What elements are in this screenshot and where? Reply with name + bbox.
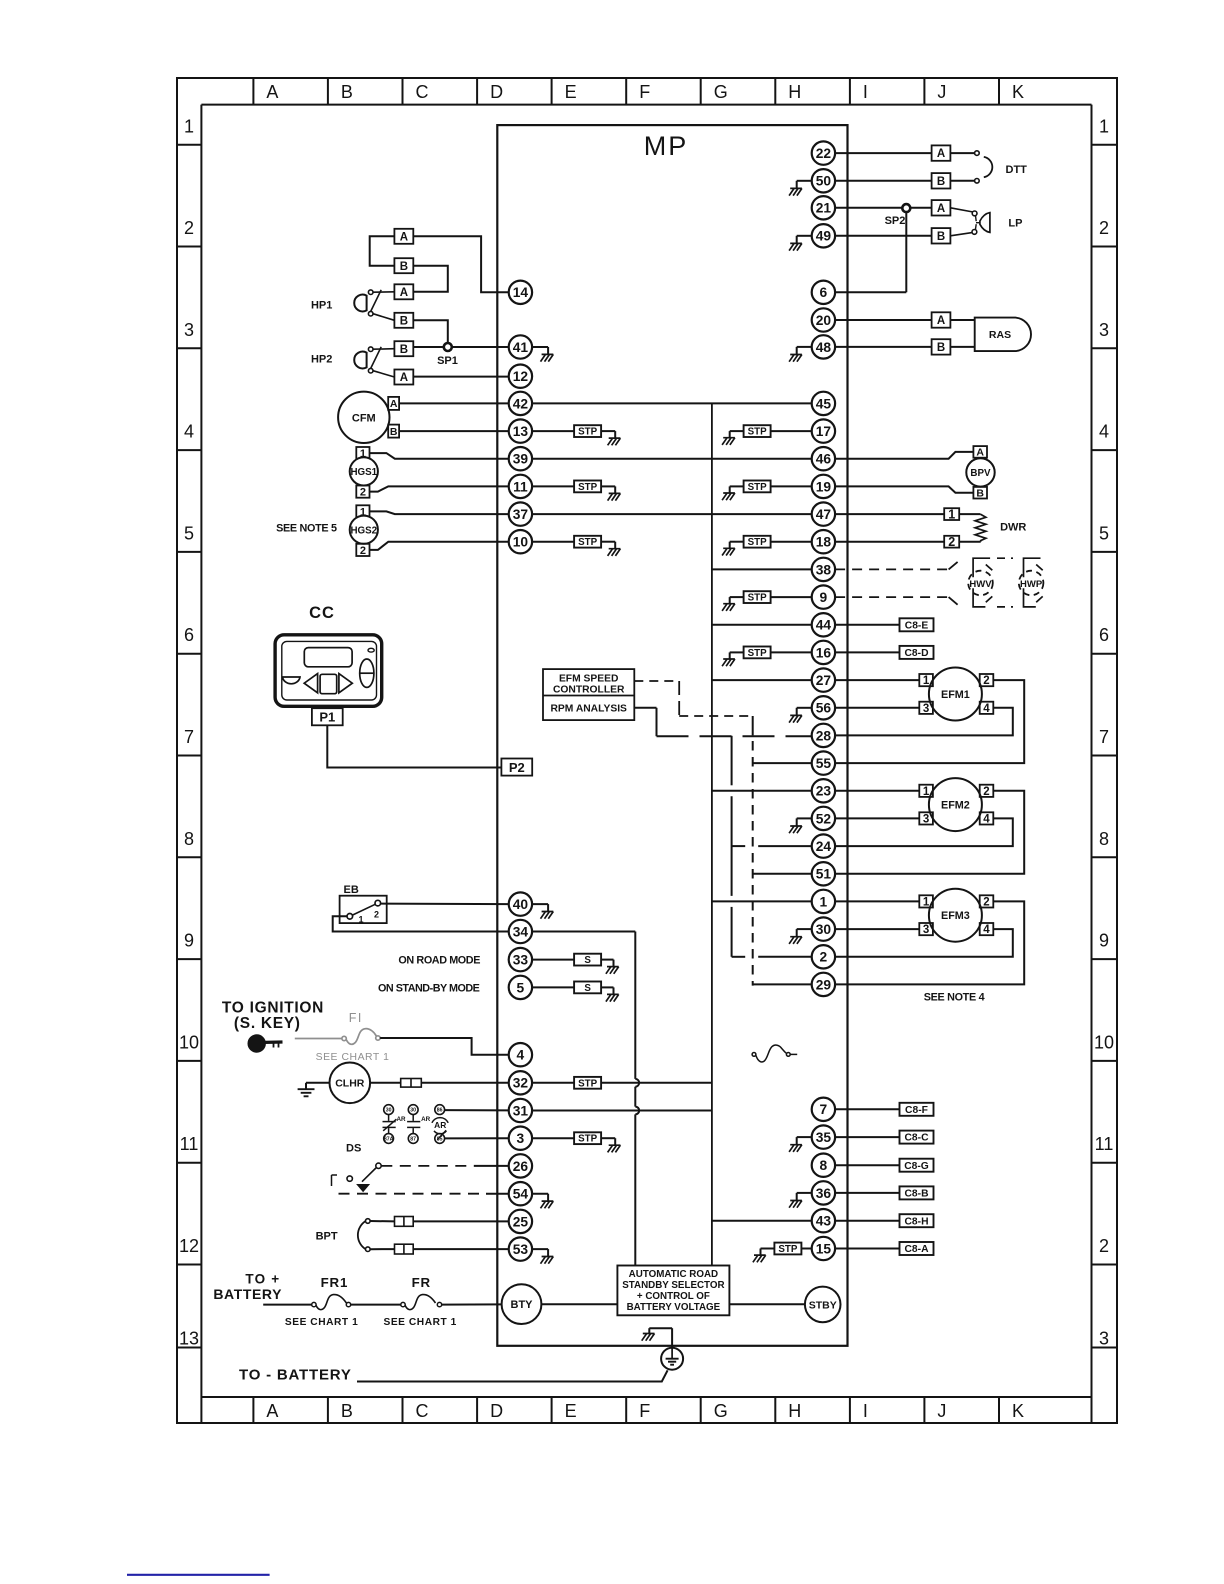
wire pin 56 to EFM1-3	[835, 707, 919, 709]
switch signal S at pin 33	[532, 954, 619, 974]
wire pin 8 to C8-G	[835, 1164, 900, 1166]
pin 29 (MP right)	[812, 973, 835, 996]
pin 16 (MP right)	[812, 641, 835, 664]
wire AR-85 to pin 3	[445, 1137, 509, 1139]
wire pin 37 to pin 47	[532, 513, 812, 515]
heater CLHR	[330, 1063, 371, 1104]
horn HP2	[311, 347, 394, 377]
svg-text:55: 55	[816, 756, 832, 771]
svg-text:12: 12	[513, 369, 529, 384]
wire pin 31 to bus	[532, 1110, 712, 1112]
svg-text:1: 1	[184, 117, 194, 137]
sensor HGS1	[350, 447, 378, 499]
connector C8-G	[900, 1159, 934, 1172]
svg-text:STP: STP	[748, 482, 768, 493]
wire pin 38 to HWV (dashed)	[835, 562, 958, 570]
svg-text:34: 34	[513, 924, 529, 939]
wire CFM-B to pin 13	[399, 430, 509, 432]
svg-text:A: A	[976, 447, 984, 459]
wire pin 22 to DTT-A	[835, 152, 932, 154]
svg-text:H: H	[788, 82, 801, 102]
ground (earth) at CLHR	[298, 1083, 330, 1097]
wire BPT upper with fuse to pin 25	[370, 1217, 509, 1227]
pin 27 (MP right)	[812, 668, 835, 691]
svg-text:1: 1	[820, 894, 828, 909]
svg-text:3: 3	[517, 1131, 525, 1146]
svg-text:11: 11	[1095, 1134, 1114, 1154]
svg-text:AR: AR	[421, 1116, 431, 1123]
svg-text:FI: FI	[349, 1011, 363, 1025]
pin 50 (MP right)	[812, 169, 835, 192]
wire pin4 return chain vertical	[731, 736, 733, 957]
pin 25 (MP left)	[509, 1210, 532, 1233]
pin 17 (MP right)	[812, 419, 835, 442]
svg-text:32: 32	[513, 1076, 529, 1091]
pin 3 (MP left)	[509, 1127, 532, 1150]
svg-text:K: K	[1012, 82, 1024, 102]
connector B (RAS)	[932, 339, 951, 354]
thermostat DTT	[950, 151, 1027, 183]
svg-text:41: 41	[513, 340, 529, 355]
wire bus to pin 1	[712, 900, 812, 902]
wire DS lower to pin 54 (dashed)	[339, 1193, 509, 1195]
ground at pin 50	[789, 181, 812, 196]
pin 51 (MP right)	[812, 862, 835, 885]
svg-text:26: 26	[513, 1159, 529, 1174]
svg-text:39: 39	[513, 452, 529, 467]
svg-text:STP: STP	[748, 427, 768, 438]
fuse FR	[383, 1275, 456, 1328]
svg-text:SP2: SP2	[885, 215, 906, 227]
svg-text:25: 25	[513, 1214, 529, 1229]
svg-text:C8-D: C8-D	[904, 648, 928, 659]
svg-text:A: A	[400, 287, 408, 299]
pin 56 (MP right)	[812, 696, 835, 719]
wire pin 47 to DWR-1	[835, 513, 944, 515]
svg-text:4: 4	[983, 924, 990, 936]
wire pin 35 to C8-C	[835, 1136, 900, 1138]
pin 22 (MP right)	[812, 141, 835, 164]
svg-text:37: 37	[513, 507, 529, 522]
loudspeaker LP	[950, 208, 1022, 236]
svg-text:HWV: HWV	[969, 579, 992, 590]
svg-text:CONTROLLER: CONTROLLER	[553, 684, 625, 695]
svg-text:BATTERY VOLTAGE: BATTERY VOLTAGE	[627, 1302, 721, 1313]
svg-text:52: 52	[816, 811, 832, 826]
wire pin 42 to pin 45	[532, 402, 812, 404]
svg-text:B: B	[976, 488, 984, 500]
horn HP1	[311, 290, 394, 321]
pin 26 (MP left)	[509, 1154, 532, 1177]
svg-text:29: 29	[816, 977, 832, 992]
svg-text:45: 45	[816, 396, 832, 411]
svg-text:G: G	[714, 1401, 728, 1421]
pin 41 (MP left)	[509, 335, 532, 358]
wire pin 43 to C8-H	[835, 1220, 900, 1222]
pin 37 (MP left)	[509, 502, 532, 525]
svg-text:40: 40	[513, 897, 529, 912]
svg-text:7: 7	[184, 727, 194, 747]
svg-text:86: 86	[437, 1108, 443, 1114]
fuse FI (gray)	[295, 1011, 390, 1063]
EFM speed controller box	[543, 669, 634, 720]
wire battery feed to FR1	[263, 1304, 312, 1306]
svg-text:B: B	[400, 344, 408, 356]
svg-text:B: B	[400, 315, 408, 327]
svg-text:C: C	[416, 1401, 429, 1421]
svg-text:FR: FR	[412, 1275, 431, 1290]
connector A (LP)	[932, 200, 951, 215]
svg-text:24: 24	[816, 839, 832, 854]
svg-text:7: 7	[1099, 727, 1109, 747]
open splice pigtail	[752, 1045, 797, 1062]
wire pin 16 to C8-D	[835, 651, 900, 653]
wire selector to STBY	[729, 1303, 805, 1305]
svg-text:4: 4	[1099, 422, 1109, 442]
svg-text:1: 1	[923, 897, 930, 909]
svg-text:38: 38	[816, 562, 832, 577]
pin 43 (MP right)	[812, 1209, 835, 1232]
suppressor STP at pin 3	[532, 1132, 620, 1152]
wire pin 6 to SP2	[835, 208, 906, 292]
ground at pin 48	[789, 347, 812, 362]
relay AR contacts and coil	[383, 1105, 449, 1144]
svg-text:2: 2	[948, 535, 955, 549]
svg-text:TO +: TO +	[245, 1272, 280, 1287]
svg-text:J: J	[937, 1401, 946, 1421]
wire AR-86 to pin 31	[445, 1109, 509, 1111]
pin 23 (MP right)	[812, 779, 835, 802]
svg-text:20: 20	[816, 313, 832, 328]
svg-text:A: A	[937, 203, 945, 215]
svg-text:A: A	[400, 372, 408, 384]
svg-text:4: 4	[517, 1048, 525, 1063]
svg-text:9: 9	[1099, 931, 1109, 951]
suppressor STP at pin 32 to bus	[532, 1077, 712, 1089]
svg-text:30: 30	[410, 1108, 416, 1114]
svg-text:46: 46	[816, 452, 832, 467]
wire B4 to node SP1	[413, 320, 448, 347]
svg-text:CC: CC	[309, 604, 335, 622]
svg-text:EFM3: EFM3	[941, 910, 970, 922]
svg-text:RPM ANALYSIS: RPM ANALYSIS	[550, 703, 627, 714]
wire pin 18 to DWR-2	[835, 541, 944, 543]
wire chain to pin 24	[732, 845, 812, 847]
svg-text:A: A	[266, 1401, 278, 1421]
wire chain to pin 2	[732, 956, 812, 958]
svg-text:56: 56	[816, 701, 832, 716]
pin 6 (MP right)	[812, 281, 835, 304]
wire chain to pin 55	[753, 762, 812, 764]
wire EFM1-4 return to pin 28	[835, 708, 1013, 736]
pin 7 (MP right)	[812, 1098, 835, 1121]
svg-text:4: 4	[983, 703, 990, 715]
pin 21 (MP right)	[812, 196, 835, 219]
label TO - BATTERY	[239, 1366, 352, 1383]
svg-text:21: 21	[816, 201, 832, 216]
svg-text:SEE CHART 1: SEE CHART 1	[383, 1317, 456, 1328]
motor EFM2	[919, 778, 993, 831]
svg-text:54: 54	[513, 1187, 529, 1202]
svg-text:BPT: BPT	[316, 1230, 338, 1242]
svg-text:HP2: HP2	[311, 354, 332, 366]
svg-text:48: 48	[816, 340, 832, 355]
sensor BPT	[316, 1219, 371, 1252]
pin 2 (MP right)	[812, 945, 835, 968]
suppressor STP at pin 13	[532, 425, 620, 445]
wire FR1 to FR	[351, 1304, 401, 1306]
connector C8-A	[900, 1242, 934, 1255]
pump HWP (dashed)	[997, 558, 1043, 607]
svg-text:A: A	[390, 398, 398, 410]
svg-text:AR: AR	[434, 1120, 446, 1130]
label ON ROAD MODE	[398, 955, 480, 967]
wire HGS1-1 to pin 39	[370, 453, 509, 459]
svg-text:B: B	[400, 261, 408, 273]
svg-text:C: C	[416, 82, 429, 102]
pin 18 (MP right)	[812, 530, 835, 553]
MP controller box U-MP	[497, 125, 847, 1346]
svg-text:(S. KEY): (S. KEY)	[234, 1015, 301, 1032]
pin 53 (MP left)	[509, 1237, 532, 1260]
svg-text:27: 27	[816, 673, 832, 688]
svg-text:C8-G: C8-G	[904, 1161, 929, 1172]
svg-text:A: A	[937, 315, 945, 327]
ignition key symbol	[249, 1035, 283, 1051]
svg-text:DWR: DWR	[1000, 522, 1026, 534]
wire A1-B2 left bracket	[370, 236, 395, 265]
svg-text:2: 2	[374, 910, 379, 920]
svg-text:2: 2	[184, 218, 194, 238]
svg-text:23: 23	[816, 784, 832, 799]
svg-text:C8-E: C8-E	[905, 620, 929, 631]
wire bus to pin 38	[712, 568, 812, 570]
wire pin 23 to EFM2-1	[835, 790, 919, 792]
svg-text:A: A	[266, 82, 278, 102]
pin 54 (MP left)	[509, 1182, 532, 1205]
svg-text:49: 49	[816, 229, 832, 244]
motor EFM3	[919, 889, 993, 942]
svg-text:DS: DS	[346, 1143, 361, 1155]
pin 31 (MP left)	[509, 1099, 532, 1122]
label TO + BATTERY	[213, 1272, 282, 1302]
svg-text:3: 3	[923, 703, 929, 715]
wire B2-A3 right bracket	[413, 266, 448, 292]
svg-text:HGS1: HGS1	[350, 467, 377, 478]
pin 35 (MP right)	[812, 1125, 835, 1148]
svg-text:17: 17	[816, 424, 832, 439]
svg-text:33: 33	[513, 953, 529, 968]
svg-text:B: B	[937, 176, 945, 188]
svg-text:F: F	[639, 1401, 650, 1421]
svg-text:P1: P1	[319, 710, 335, 725]
svg-text:12: 12	[179, 1236, 199, 1256]
svg-text:STP: STP	[578, 427, 598, 438]
pin 11 (MP left)	[509, 475, 532, 498]
wire EFM2-2 return to pin 51	[835, 791, 1024, 874]
svg-text:36: 36	[816, 1186, 832, 1201]
svg-text:HWP: HWP	[1020, 579, 1043, 590]
pin 45 (MP right)	[812, 392, 835, 415]
pin 28 (MP right)	[812, 724, 835, 747]
svg-text:SP1: SP1	[437, 355, 458, 367]
switch DS	[332, 1143, 382, 1192]
motor EFM1	[919, 668, 993, 721]
node SP1	[437, 343, 458, 367]
svg-text:18: 18	[816, 535, 832, 550]
svg-text:E: E	[565, 1401, 577, 1421]
wire pin 21 through SP2 to LP-A	[835, 207, 932, 209]
pin 30 (MP right)	[812, 917, 835, 940]
ground at pin 40	[532, 904, 553, 919]
svg-text:CFM: CFM	[352, 412, 376, 424]
svg-text:30: 30	[816, 922, 832, 937]
svg-text:11: 11	[180, 1134, 199, 1154]
wire pin 52 to EFM2-3	[835, 817, 919, 819]
svg-text:EFM2: EFM2	[941, 800, 970, 812]
svg-text:STP: STP	[748, 593, 768, 604]
connector C8-H	[900, 1214, 934, 1227]
suppressor STP at pin 15	[753, 1243, 812, 1263]
pin 38 (MP right)	[812, 558, 835, 581]
ground at pin 30	[789, 929, 812, 944]
ground at pin 52	[789, 818, 812, 833]
svg-text:AR: AR	[397, 1116, 407, 1123]
svg-text:MP: MP	[644, 131, 689, 161]
pin 24 (MP right)	[812, 834, 835, 857]
wire internal bus (pin42/45 row to selector box)	[711, 403, 713, 1265]
svg-text:TO - BATTERY: TO - BATTERY	[239, 1366, 352, 1383]
wire chain to pin 29	[753, 983, 812, 985]
svg-text:S: S	[584, 983, 591, 994]
svg-text:C8-F: C8-F	[905, 1105, 928, 1116]
wire EB-1 to pin 34	[333, 916, 509, 931]
pin 46 (MP right)	[812, 447, 835, 470]
suppressor STP at pin 11	[532, 481, 620, 501]
wire pin 48 to RAS-B	[835, 346, 932, 348]
svg-text:2: 2	[983, 786, 989, 798]
svg-text:STP: STP	[748, 648, 768, 659]
pin 48 (MP right)	[812, 335, 835, 358]
svg-text:10: 10	[1094, 1032, 1114, 1052]
svg-text:3: 3	[923, 924, 929, 936]
svg-text:BTY: BTY	[511, 1299, 534, 1311]
svg-text:B: B	[390, 426, 398, 438]
wire pin 1 to EFM3-1	[835, 900, 919, 902]
svg-text:1: 1	[923, 786, 930, 798]
connector C8-C	[900, 1131, 934, 1144]
wire A1 to pin 14	[413, 236, 508, 292]
svg-text:3: 3	[923, 814, 929, 826]
svg-text:RAS: RAS	[989, 329, 1011, 341]
svg-text:3: 3	[1099, 1329, 1109, 1349]
wire pin 50 to DTT-B	[835, 180, 932, 182]
pin 49 (MP right)	[812, 224, 835, 247]
sensor HGS2	[276, 505, 378, 557]
svg-text:BATTERY: BATTERY	[213, 1286, 282, 1302]
wire EB-2 to pin 40	[381, 903, 509, 906]
svg-text:+ CONTROL OF: + CONTROL OF	[637, 1291, 710, 1302]
pin 8 (MP right)	[812, 1154, 835, 1177]
svg-text:E: E	[565, 82, 577, 102]
pin 19 (MP right)	[812, 475, 835, 498]
svg-text:35: 35	[816, 1130, 832, 1145]
svg-text:SEE NOTE 4: SEE NOTE 4	[924, 992, 985, 1004]
svg-text:STBY: STBY	[809, 1300, 837, 1312]
connector box ladder A/B (top left)	[394, 229, 413, 385]
connector B (DTT)	[932, 173, 951, 188]
connector B (LP)	[932, 228, 951, 243]
svg-text:ON STAND-BY MODE: ON STAND-BY MODE	[378, 982, 480, 994]
connector A (DTT)	[932, 145, 951, 160]
svg-text:LP: LP	[1008, 218, 1022, 230]
svg-text:15: 15	[816, 1241, 832, 1256]
wire pin 39 to pin 46	[532, 458, 812, 460]
svg-text:1: 1	[948, 508, 955, 522]
svg-text:2: 2	[360, 487, 366, 499]
wire pin 20 to RAS-A	[835, 319, 932, 321]
svg-text:A: A	[937, 148, 945, 160]
pin 15 (MP right)	[812, 1237, 835, 1260]
wire DS to pin 26 (dashed)	[381, 1165, 508, 1167]
svg-text:C8-B: C8-B	[904, 1189, 928, 1200]
connector P1	[312, 708, 343, 725]
svg-text:G: G	[714, 82, 728, 102]
wire chain to pin 51	[753, 873, 812, 875]
wire bus to pin 43	[712, 1220, 812, 1222]
ground at pin 53	[532, 1249, 553, 1264]
pin 34 (MP left)	[509, 920, 532, 943]
svg-text:87A: 87A	[384, 1137, 394, 1143]
wire pin 27 to EFM1-1	[835, 679, 919, 681]
svg-text:2: 2	[820, 950, 828, 965]
connector C8-D	[900, 646, 934, 659]
svg-text:2: 2	[983, 897, 989, 909]
svg-text:AUTOMATIC ROAD: AUTOMATIC ROAD	[629, 1269, 718, 1280]
svg-text:STP: STP	[578, 1078, 598, 1089]
svg-text:3: 3	[1099, 320, 1109, 340]
switch signal S at pin 5	[532, 982, 619, 1002]
wire pin 44 to C8-E	[835, 624, 900, 626]
svg-text:BPV: BPV	[970, 468, 991, 479]
svg-text:31: 31	[513, 1103, 529, 1118]
svg-text:2: 2	[1099, 1236, 1109, 1256]
svg-text:EFM1: EFM1	[941, 689, 970, 701]
svg-text:TO IGNITION: TO IGNITION	[222, 1000, 324, 1017]
wire pin34 feed vertical with hops	[532, 932, 639, 1266]
pin 14 (MP left)	[509, 281, 532, 304]
pin 40 (MP left)	[509, 892, 532, 915]
wire BTY to selector	[541, 1303, 617, 1305]
svg-text:8: 8	[184, 829, 194, 849]
svg-text:43: 43	[816, 1214, 832, 1229]
svg-text:SEE CHART 1: SEE CHART 1	[316, 1052, 390, 1063]
svg-text:DTT: DTT	[1006, 164, 1028, 176]
wire HGS1-2 to pin 11	[370, 486, 509, 491]
svg-text:H: H	[788, 1401, 801, 1421]
pin 9 (MP right)	[812, 585, 835, 608]
pin 10 (MP left)	[509, 530, 532, 553]
svg-text:1: 1	[359, 915, 364, 925]
pin 4 (MP left)	[509, 1043, 532, 1066]
wire EFM1-2 return to pin 55	[835, 680, 1024, 763]
svg-text:CLHR: CLHR	[335, 1078, 365, 1090]
suppressor STP at pin 10	[532, 536, 620, 556]
ground at pin 49	[789, 236, 812, 251]
svg-text:51: 51	[816, 867, 832, 882]
svg-text:8: 8	[820, 1158, 828, 1173]
svg-text:6: 6	[184, 625, 194, 645]
